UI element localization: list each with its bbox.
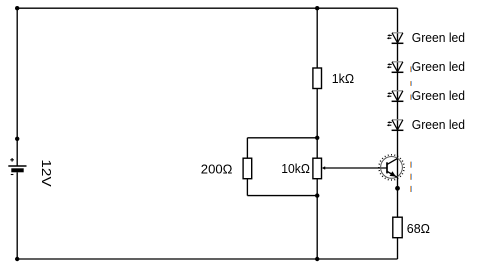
wire left rail lower [16, 172, 18, 259]
junction bottom-middle [315, 257, 319, 261]
junction battery top [15, 137, 19, 141]
LED D3 [387, 91, 404, 102]
potentiometer 10k [313, 158, 325, 179]
wire parallel bottom [247, 195, 317, 197]
svg-text:12V: 12V [39, 159, 54, 186]
wire middle branch [316, 8, 318, 259]
battery BT1 [8, 158, 26, 175]
wire parallel left leg [246, 138, 248, 196]
resistor 1k [313, 68, 322, 89]
junction top-middle [315, 6, 319, 10]
svg-text:68Ω: 68Ω [407, 221, 430, 236]
wire bottom rail [17, 258, 397, 260]
wire right rail [397, 8, 399, 259]
LED D4 [387, 120, 404, 131]
junction emitter [395, 186, 400, 191]
wire parallel top [247, 137, 317, 139]
junction parallel bottom [315, 193, 319, 197]
transistor Q1 [378, 154, 405, 181]
junction parallel top [315, 136, 319, 140]
junction bottom-left [15, 257, 19, 261]
marker dashes lower [410, 162, 412, 192]
svg-text:Green led: Green led [412, 88, 465, 103]
wire left rail upper [16, 8, 18, 166]
LED D2 [387, 62, 404, 73]
svg-text:200Ω: 200Ω [201, 162, 233, 177]
svg-text:10kΩ: 10kΩ [281, 161, 310, 176]
wire wiper to base [325, 167, 387, 169]
resistor 68 [393, 217, 402, 238]
junction top-left [15, 6, 19, 10]
svg-text:1kΩ: 1kΩ [332, 71, 354, 86]
resistor 200 [243, 158, 252, 179]
svg-text:Green led: Green led [412, 117, 465, 132]
svg-text:Green led: Green led [412, 59, 465, 74]
wire top rail [17, 7, 397, 9]
svg-text:Green led: Green led [412, 30, 465, 45]
marker dashes upper [410, 66, 412, 99]
LED D1 [387, 33, 404, 44]
